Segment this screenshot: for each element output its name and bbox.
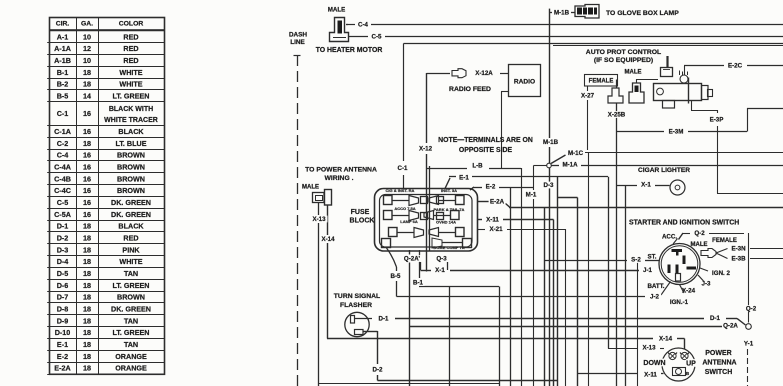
svg-text:E-2A: E-2A <box>490 199 505 206</box>
svg-text:18: 18 <box>83 222 91 231</box>
svg-text:A-1B: A-1B <box>54 56 71 65</box>
svg-text:CIGAR LIGHTER: CIGAR LIGHTER <box>638 167 690 174</box>
svg-text:B-1: B-1 <box>413 280 424 287</box>
svg-text:C-4A: C-4A <box>54 162 71 171</box>
svg-text:TO GLOVE BOX LAMP: TO GLOVE BOX LAMP <box>606 10 679 17</box>
svg-text:E-2A: E-2A <box>54 364 70 373</box>
svg-text:12: 12 <box>83 44 91 53</box>
svg-text:RADIO FEED: RADIO FEED <box>449 86 491 93</box>
svg-text:X-11: X-11 <box>644 372 657 379</box>
svg-text:INST. 3A: INST. 3A <box>441 188 457 193</box>
svg-text:D-3: D-3 <box>57 245 69 254</box>
svg-text:ACCO 7.5A: ACCO 7.5A <box>394 206 415 211</box>
svg-text:16: 16 <box>83 109 91 118</box>
svg-text:DK. GREEN: DK. GREEN <box>111 210 151 219</box>
svg-text:TAN: TAN <box>124 269 138 278</box>
svg-text:16: 16 <box>83 186 91 195</box>
svg-text:C-5: C-5 <box>372 34 383 41</box>
svg-text:FUSE: FUSE <box>351 209 370 216</box>
svg-text:D-5: D-5 <box>57 269 69 278</box>
svg-text:MALE: MALE <box>302 185 319 191</box>
svg-text:M-1: M-1 <box>526 192 537 199</box>
svg-text:18: 18 <box>83 340 91 349</box>
svg-text:C-4: C-4 <box>57 151 69 160</box>
svg-text:X-1: X-1 <box>435 267 445 274</box>
svg-text:PINK: PINK <box>122 245 140 254</box>
svg-text:WHITE: WHITE <box>119 68 142 77</box>
svg-text:RED: RED <box>123 56 138 65</box>
svg-text:J-2: J-2 <box>650 294 660 301</box>
svg-text:16: 16 <box>83 127 91 136</box>
svg-text:NOTE—TERMINALS ARE ON: NOTE—TERMINALS ARE ON <box>438 137 533 144</box>
svg-text:UP: UP <box>686 361 696 368</box>
svg-text:D-4: D-4 <box>57 257 69 266</box>
svg-text:E-3N: E-3N <box>731 246 746 253</box>
svg-text:X-1: X-1 <box>641 182 651 189</box>
svg-text:D-9: D-9 <box>57 316 69 325</box>
svg-text:BLOCK: BLOCK <box>350 218 375 225</box>
svg-text:X-13: X-13 <box>642 345 656 352</box>
svg-text:16: 16 <box>83 198 91 207</box>
svg-text:RADIO: RADIO <box>514 78 535 85</box>
svg-text:COLOR: COLOR <box>119 20 144 27</box>
svg-text:RED: RED <box>123 32 138 41</box>
svg-text:WHITE: WHITE <box>119 80 142 89</box>
svg-text:C-4: C-4 <box>358 22 369 29</box>
svg-text:DOME COMP 7A: DOME COMP 7A <box>433 245 464 250</box>
svg-text:16: 16 <box>83 210 91 219</box>
svg-text:18: 18 <box>83 68 91 77</box>
svg-text:D-1: D-1 <box>379 316 390 323</box>
svg-text:J-3: J-3 <box>702 281 712 288</box>
svg-text:10: 10 <box>83 56 91 65</box>
svg-text:D-10: D-10 <box>55 328 71 337</box>
svg-text:DOWN: DOWN <box>643 360 665 367</box>
svg-text:LT. GREEN: LT. GREEN <box>112 281 149 290</box>
svg-text:Q-2: Q-2 <box>746 306 757 313</box>
svg-text:10: 10 <box>83 32 91 41</box>
svg-text:DASH: DASH <box>289 31 307 38</box>
svg-text:SWITCH: SWITCH <box>705 369 733 376</box>
svg-text:Q-3: Q-3 <box>436 256 447 263</box>
svg-text:E-2C: E-2C <box>728 63 743 70</box>
svg-text:MALE: MALE <box>328 7 346 14</box>
svg-text:M-1B: M-1B <box>554 10 570 17</box>
svg-text:M-1C: M-1C <box>568 150 584 157</box>
svg-text:14: 14 <box>83 91 91 100</box>
svg-text:MALE: MALE <box>625 70 642 76</box>
svg-text:STARTER AND IGNITION SWITCH: STARTER AND IGNITION SWITCH <box>629 219 739 226</box>
svg-text:18: 18 <box>83 80 91 89</box>
svg-text:A-1: A-1 <box>57 32 69 41</box>
svg-text:TAN: TAN <box>124 340 138 349</box>
svg-text:E-2: E-2 <box>57 352 68 361</box>
svg-text:LAMP 6A: LAMP 6A <box>400 219 418 224</box>
svg-text:Y-1: Y-1 <box>744 341 754 348</box>
svg-text:C-1: C-1 <box>57 109 69 118</box>
svg-text:M-1B: M-1B <box>543 139 559 146</box>
svg-text:C-5: C-5 <box>57 198 69 207</box>
svg-text:B-2: B-2 <box>57 80 69 89</box>
svg-text:IGN.-1: IGN.-1 <box>670 299 689 306</box>
svg-text:POWER: POWER <box>705 350 731 357</box>
svg-text:RED: RED <box>123 44 138 53</box>
svg-text:AUTO PROT CONTROL: AUTO PROT CONTROL <box>586 49 661 56</box>
svg-text:MALE: MALE <box>691 242 708 248</box>
svg-text:M-1A: M-1A <box>562 162 578 169</box>
svg-text:ORANGE: ORANGE <box>115 352 147 361</box>
svg-text:X-21: X-21 <box>489 226 503 233</box>
svg-text:18: 18 <box>83 257 91 266</box>
svg-text:TAN: TAN <box>124 316 138 325</box>
svg-text:A-1A: A-1A <box>54 44 71 53</box>
svg-text:TO HEATER MOTOR: TO HEATER MOTOR <box>316 47 383 54</box>
svg-text:18: 18 <box>83 293 91 302</box>
svg-text:LT. GREEN: LT. GREEN <box>112 328 149 337</box>
svg-text:D-3: D-3 <box>544 182 555 189</box>
svg-text:X-12A: X-12A <box>475 70 493 77</box>
svg-text:Q-2: Q-2 <box>694 230 705 237</box>
svg-text:18: 18 <box>83 316 91 325</box>
svg-text:BROWN: BROWN <box>117 151 145 160</box>
svg-text:C-2: C-2 <box>57 139 69 148</box>
svg-text:E-1: E-1 <box>57 340 68 349</box>
svg-text:X-24: X-24 <box>682 288 696 295</box>
svg-text:BATT.: BATT. <box>647 283 664 290</box>
svg-text:16: 16 <box>83 151 91 160</box>
svg-text:L-B: L-B <box>472 163 483 170</box>
svg-text:X-11: X-11 <box>486 217 499 224</box>
svg-text:Q-2A: Q-2A <box>723 323 738 330</box>
svg-text:18: 18 <box>83 281 91 290</box>
svg-text:WHITE TRACER: WHITE TRACER <box>104 117 158 124</box>
svg-text:18: 18 <box>83 269 91 278</box>
svg-text:ST.: ST. <box>648 254 657 261</box>
svg-text:16: 16 <box>83 162 91 171</box>
svg-text:X-27: X-27 <box>581 93 595 100</box>
svg-text:BROWN: BROWN <box>117 162 145 171</box>
svg-text:E-3P: E-3P <box>710 117 724 124</box>
svg-text:BROWN: BROWN <box>117 293 145 302</box>
svg-text:BLACK WITH: BLACK WITH <box>109 106 153 113</box>
svg-text:(IF SO EQUIPPED): (IF SO EQUIPPED) <box>594 57 653 64</box>
svg-text:J-1: J-1 <box>643 267 653 274</box>
svg-text:OVHD 14A: OVHD 14A <box>436 220 456 225</box>
svg-text:IGN. 2: IGN. 2 <box>712 270 730 277</box>
svg-text:X-25B: X-25B <box>608 112 626 119</box>
svg-text:D-7: D-7 <box>57 293 69 302</box>
svg-text:D-1: D-1 <box>57 222 69 231</box>
svg-text:B-5: B-5 <box>391 273 402 280</box>
svg-text:18: 18 <box>83 328 91 337</box>
svg-text:16: 16 <box>83 174 91 183</box>
svg-text:C-1: C-1 <box>398 165 409 172</box>
svg-text:18: 18 <box>83 245 91 254</box>
svg-text:E-3M: E-3M <box>669 129 684 136</box>
svg-text:18: 18 <box>83 234 91 243</box>
svg-text:E-2: E-2 <box>486 184 496 191</box>
svg-text:DK. GREEN: DK. GREEN <box>111 305 151 314</box>
svg-text:18: 18 <box>83 364 91 373</box>
svg-text:D-2: D-2 <box>373 367 384 374</box>
svg-text:WHITE: WHITE <box>119 257 142 266</box>
svg-text:LT. GREEN: LT. GREEN <box>112 91 149 100</box>
svg-text:ACC.: ACC. <box>662 234 677 241</box>
svg-text:BROWN: BROWN <box>117 186 145 195</box>
svg-text:X-12: X-12 <box>419 146 433 153</box>
svg-text:X-14: X-14 <box>659 336 673 343</box>
svg-text:LT. BLUE: LT. BLUE <box>115 139 146 148</box>
svg-text:LINE: LINE <box>290 39 305 46</box>
svg-text:D-8: D-8 <box>57 305 69 314</box>
svg-text:BROWN: BROWN <box>117 174 145 183</box>
svg-text:FEMALE: FEMALE <box>712 238 737 244</box>
svg-text:CIR.: CIR. <box>56 20 70 27</box>
svg-text:X-14: X-14 <box>321 236 335 243</box>
svg-text:RED: RED <box>123 234 138 243</box>
svg-text:S-2: S-2 <box>631 257 641 264</box>
svg-text:WIRING .: WIRING . <box>324 175 353 182</box>
svg-text:TURN SIGNAL: TURN SIGNAL <box>334 293 380 300</box>
svg-text:FEMALE: FEMALE <box>589 79 614 85</box>
svg-text:ORANGE: ORANGE <box>115 364 147 373</box>
svg-text:ANTENNA: ANTENNA <box>702 360 736 367</box>
svg-text:E-1: E-1 <box>459 175 469 182</box>
svg-text:Q-2A’: Q-2A’ <box>404 256 420 263</box>
svg-text:18: 18 <box>83 352 91 361</box>
svg-text:BLACK: BLACK <box>118 222 144 231</box>
svg-text:PARK & TAIL 7A: PARK & TAIL 7A <box>434 207 465 212</box>
svg-text:C-1A: C-1A <box>54 127 71 136</box>
svg-text:DK. GREEN: DK. GREEN <box>111 198 151 207</box>
svg-text:D-1: D-1 <box>710 315 721 322</box>
svg-text:FLASHER: FLASHER <box>340 302 372 309</box>
svg-text:C-4C: C-4C <box>54 186 71 195</box>
svg-text:B-1: B-1 <box>57 68 69 77</box>
svg-text:TO POWER ANTENNA: TO POWER ANTENNA <box>305 166 377 173</box>
svg-text:E-3B: E-3B <box>731 256 746 263</box>
svg-text:C-4B: C-4B <box>54 174 71 183</box>
svg-text:X-13: X-13 <box>312 216 326 223</box>
svg-text:D-6: D-6 <box>57 281 69 290</box>
svg-text:18: 18 <box>83 305 91 314</box>
svg-text:D-2: D-2 <box>57 234 69 243</box>
svg-text:GA.: GA. <box>81 20 93 27</box>
svg-text:18: 18 <box>83 139 91 148</box>
svg-text:OPPOSITE SIDE: OPPOSITE SIDE <box>459 147 513 154</box>
svg-text:C-5A: C-5A <box>54 210 71 219</box>
svg-text:CIG & INST. RA: CIG & INST. RA <box>386 188 415 193</box>
svg-text:B-5: B-5 <box>57 91 69 100</box>
svg-text:BLACK: BLACK <box>118 127 144 136</box>
